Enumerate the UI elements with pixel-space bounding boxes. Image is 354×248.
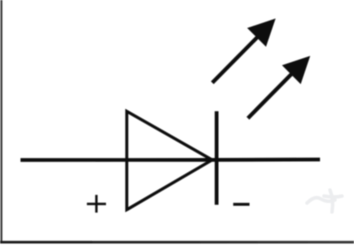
LED light emission arrow 2 [248,56,310,118]
wire cathode lead [214,158,320,162]
LED light emission arrow 1 [212,19,275,83]
LED D1 cathode bar [215,111,219,205]
wire anode lead [21,158,215,162]
polarity label - (cathode) [233,203,249,206]
polarity label + (anode) [87,195,106,213]
LED D1 anode triangle [127,111,212,209]
